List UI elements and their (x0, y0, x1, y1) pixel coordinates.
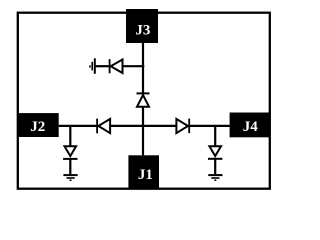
svg-text:J2: J2 (30, 119, 45, 135)
diode D5 (vertical, pointing down) (63, 146, 77, 159)
diode D6 (vertical, pointing down) (208, 146, 222, 159)
connector J3 (126, 9, 158, 43)
ground (top-left, sideways) (89, 58, 95, 74)
wire D4 to J4 (189, 125, 229, 127)
connector J4 (230, 113, 270, 138)
border frame (18, 13, 270, 189)
wire left branch down (69, 126, 71, 146)
wire D1 to vertical wire (123, 65, 145, 67)
ground (bottom-right) (208, 175, 222, 181)
wire right branch down (214, 126, 216, 146)
wire D6 to ground (214, 159, 216, 174)
diode D1 (horizontal, pointing left, cathode to side ground) (110, 59, 123, 73)
wire D5 to ground (69, 159, 71, 174)
ground (bottom-left) (63, 175, 77, 181)
wire D2 to J1 (142, 107, 144, 156)
svg-text:J1: J1 (138, 167, 153, 183)
svg-text:J4: J4 (243, 119, 259, 135)
diode D4 (horizontal, pointing right) (176, 119, 189, 134)
diode D2 (vertical, pointing up) (137, 93, 150, 106)
svg-text:J3: J3 (135, 22, 150, 38)
connector J1 (128, 155, 159, 189)
wire D3 to D4 (through center junction) (110, 125, 176, 127)
wire top-left ground to diode D1 (96, 65, 109, 67)
connector J2 (17, 113, 58, 137)
diode D3 (horizontal, pointing left) (97, 119, 110, 134)
wire J3 to diode D2 (142, 43, 144, 93)
wire J2 to diode D3 (59, 125, 97, 127)
